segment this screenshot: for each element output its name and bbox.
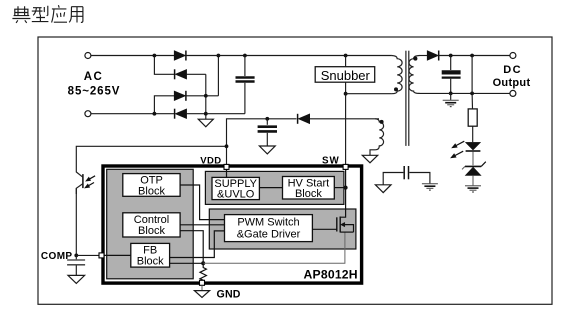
- svg-text:&Gate Driver: &Gate Driver: [237, 229, 301, 241]
- wire Control upper to PWM: [180, 224, 224, 226]
- svg-text:VDD: VDD: [200, 155, 221, 166]
- svg-text:&UVLO: &UVLO: [217, 189, 255, 201]
- pin GND: [200, 280, 205, 285]
- node divider bottom: [470, 92, 474, 96]
- transformer core: [406, 51, 409, 146]
- wire VDD supply line: [227, 119, 380, 165]
- transformer primary winding: [392, 56, 403, 94]
- wire FB to PWM: [170, 231, 225, 258]
- box Control Block: [123, 213, 180, 237]
- svg-text:Block: Block: [138, 225, 165, 237]
- wire output divider vertical: [471, 56, 473, 94]
- wire VDD pin to SUPPLY: [226, 167, 228, 177]
- ground primary COMP: [68, 275, 85, 283]
- wire plus bus vertical: [217, 56, 219, 96]
- ground primary bridge: [198, 115, 213, 127]
- pin SW: [343, 164, 348, 169]
- wire LED to zener: [472, 152, 474, 166]
- svg-text:GND: GND: [217, 288, 241, 300]
- wire opto collector line: [76, 146, 226, 172]
- node output divider top: [470, 54, 474, 58]
- box OTP Block: [123, 174, 180, 198]
- box FB Block: [131, 243, 170, 267]
- node minus bus crossings: [204, 94, 208, 98]
- node plus bus top: [217, 54, 221, 58]
- diode D1 bridge top: [174, 51, 186, 61]
- svg-text:Output: Output: [493, 77, 531, 89]
- node bulk cap top: [243, 54, 247, 58]
- capacitor output: [442, 56, 461, 94]
- wire OTP to PWM: [180, 185, 224, 220]
- wire sense line to MOSFET source: [203, 232, 345, 263]
- ground primary Y-cap: [375, 185, 391, 193]
- node snubber top: [344, 54, 348, 58]
- transistor MOSFET: [312, 217, 353, 233]
- svg-text:AC: AC: [84, 71, 104, 83]
- wire aux to ground: [370, 150, 375, 155]
- wire bridge left vertical top: [154, 56, 174, 75]
- LED opto emitter: [451, 141, 480, 158]
- title 应: [52, 5, 67, 22]
- snubber box: [315, 67, 375, 83]
- diode D3 bridge third: [174, 91, 218, 101]
- wire output top rail: [439, 55, 510, 57]
- svg-text:Snubber: Snubber: [321, 68, 371, 83]
- wire SW vertical: [345, 94, 347, 165]
- capacitor COMP: [67, 255, 85, 275]
- title 用: [69, 7, 83, 23]
- svg-text:DC: DC: [503, 64, 522, 76]
- wire top rail to transformer: [186, 55, 392, 57]
- wire primary bottom: [346, 93, 392, 95]
- wire snubber vertical: [345, 56, 347, 94]
- transformer secondary winding: [409, 56, 420, 94]
- pin VDD: [224, 164, 229, 169]
- node top rail junction: [153, 54, 157, 58]
- node output cap top: [449, 54, 453, 58]
- box HV Start Block: [283, 177, 335, 201]
- wire secondary top to diode: [420, 55, 428, 57]
- diode zener: [462, 162, 486, 176]
- box SUPPLY UVLO: [212, 177, 259, 200]
- svg-text:85~265V: 85~265V: [68, 86, 121, 98]
- diode output rectifier: [427, 51, 439, 61]
- wire COMP pin to FB: [104, 254, 131, 256]
- node snubber bottom: [344, 92, 348, 96]
- capacitor Y between grounds: [383, 166, 430, 185]
- wire return line to bulk cap: [206, 113, 245, 115]
- wire FB to sense node: [170, 262, 204, 264]
- node HV SW junction: [344, 186, 348, 190]
- diode D4 bridge bottom: [175, 109, 206, 119]
- svg-text:Block: Block: [295, 188, 322, 200]
- ground earth Y-cap: [422, 184, 438, 190]
- box PWM Switch Gate Driver: [225, 215, 313, 242]
- ground earth zener: [465, 175, 481, 192]
- gray block top right: [205, 171, 344, 204]
- svg-text:Block: Block: [138, 186, 165, 198]
- IC body border: [103, 166, 362, 283]
- DC output terminal bottom: [510, 90, 516, 96]
- AC input terminal bottom: [85, 111, 91, 117]
- svg-text:Block: Block: [137, 255, 164, 267]
- ground GND pin: [194, 285, 209, 297]
- node output cap bottom: [449, 92, 453, 96]
- AC input terminal top: [85, 53, 91, 59]
- DC output terminal top: [510, 53, 516, 59]
- gray block left: [107, 169, 194, 278]
- pin COMP: [99, 253, 104, 258]
- outer schematic border: [38, 37, 552, 304]
- transistor opto phototransistor: [76, 172, 95, 194]
- svg-text:AP8012H: AP8012H: [304, 268, 358, 282]
- wire COMP to pin: [76, 254, 100, 256]
- transformer aux winding: [375, 119, 384, 150]
- wire minus bus vertical: [205, 74, 207, 113]
- wire SW pin to drain: [340, 167, 345, 217]
- wire SUPPLY to HV: [259, 187, 282, 189]
- wire opto emitter to COMP: [75, 188, 77, 255]
- node VDD cap junction: [265, 117, 269, 121]
- svg-text:PWM Switch: PWM Switch: [237, 217, 299, 229]
- gray block middle right: [209, 209, 356, 249]
- resistor sense zigzag: [200, 263, 206, 281]
- diode D2 bridge second: [175, 69, 206, 79]
- capacitor bulk: [236, 56, 255, 114]
- wire Control lower to sense node: [180, 231, 203, 264]
- ground primary aux: [362, 155, 377, 163]
- svg-text:SW: SW: [322, 156, 340, 167]
- title 型: [32, 6, 49, 22]
- wire bridge left vertical bottom: [154, 96, 174, 114]
- wire HV to SW vertical: [334, 187, 345, 189]
- node bottom rail junction: [153, 112, 157, 116]
- capacitor VDD: [258, 119, 277, 146]
- wire AC top rail: [91, 55, 174, 57]
- node opto to VDD: [225, 144, 229, 148]
- resistor feedback divider: [468, 93, 477, 142]
- diode VDD supply: [298, 114, 310, 124]
- wire secondary bottom rail: [420, 92, 510, 94]
- title 典: [12, 6, 30, 23]
- ground primary VDD cap: [259, 146, 275, 154]
- wire AC bottom rail: [91, 113, 174, 115]
- ground earth output cap: [443, 93, 459, 106]
- node COMP junction: [74, 254, 78, 258]
- node sense junction: [201, 261, 205, 265]
